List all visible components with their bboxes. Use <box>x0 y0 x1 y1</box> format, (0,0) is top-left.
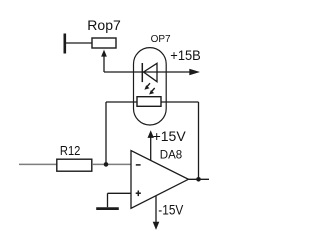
ground <box>96 207 119 210</box>
LED cathode bar <box>141 63 143 82</box>
svg-text:R12: R12 <box>60 143 81 158</box>
svg-text:Rop7: Rop7 <box>87 17 121 33</box>
resistor Rop7 <box>92 38 116 48</box>
svg-text:+15B: +15B <box>170 47 201 63</box>
wire LED anode run <box>104 71 194 73</box>
wire terminal to Rop7 <box>66 42 92 44</box>
svg-text:OP7: OP7 <box>151 34 171 45</box>
svg-text:DA8: DA8 <box>160 149 182 161</box>
optocoupler body OP7 <box>134 48 167 125</box>
wire output <box>188 178 209 180</box>
wire photoresistor left lead <box>106 101 137 103</box>
svg-text:+15V: +15V <box>153 128 187 144</box>
node junction at R12 output <box>104 162 109 167</box>
resistor R12 <box>57 159 92 171</box>
wire with up arrow from LED line to Rop7 <box>103 55 105 72</box>
light arrow 2 <box>149 88 155 95</box>
ground wire to plus input <box>108 192 132 194</box>
wire feedback vertical <box>105 102 107 164</box>
grey input net left stub <box>19 163 57 165</box>
LED triangle <box>144 63 158 81</box>
svg-text:-15V: -15V <box>158 201 184 217</box>
+15V supply arrow <box>150 137 152 161</box>
plus sign <box>136 192 141 194</box>
op-amp DA8 triangle <box>131 151 188 209</box>
arrow +15B <box>189 69 200 75</box>
wire right vertical to output <box>198 102 200 179</box>
light arrow 1 <box>144 83 150 90</box>
-15V supply arrow <box>155 196 157 223</box>
grey input net to op-amp <box>92 163 131 165</box>
minus sign <box>136 164 141 166</box>
node output junction <box>196 177 201 182</box>
terminal bar (input stud) <box>64 34 67 54</box>
wire photoresistor right lead <box>161 101 199 103</box>
photoresistor box <box>137 97 161 107</box>
